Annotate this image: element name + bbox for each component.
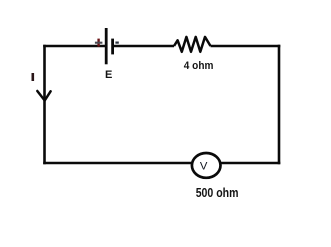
- svg-text:V: V: [200, 161, 208, 173]
- resistor R 4 ohm zigzag: [174, 37, 211, 52]
- wire bottom-left segment: [43, 162, 193, 165]
- battery minus sign: [115, 41, 118, 43]
- label I: [31, 73, 34, 81]
- svg-text:500 ohm: 500 ohm: [196, 185, 239, 200]
- wire top-right segment: [211, 45, 281, 48]
- wire top-left segment: [43, 45, 106, 48]
- voltmeter V (ellipse): [192, 153, 221, 178]
- svg-text:E: E: [105, 69, 112, 81]
- battery E short plate (-): [111, 39, 114, 55]
- svg-text:4 ohm: 4 ohm: [184, 60, 214, 72]
- wire left segment: [43, 45, 46, 165]
- current arrow (downwards on left wire): [37, 91, 50, 101]
- wire battery-to-resistor segment: [113, 45, 174, 48]
- battery plus sign: [95, 39, 103, 47]
- wire bottom-right segment: [220, 162, 281, 165]
- battery E long plate (+): [105, 28, 108, 64]
- wire right segment: [278, 45, 281, 165]
